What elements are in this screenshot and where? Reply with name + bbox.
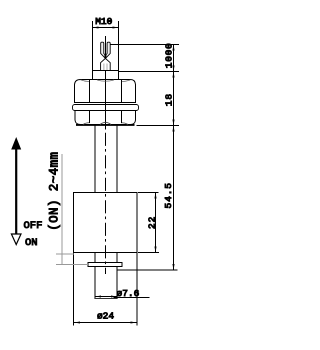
extension line left M10 / thread stub left	[92, 21, 94, 79]
travel arrow solid head up	[11, 137, 21, 150]
dimension line M10	[93, 27, 118, 29]
hex nut 1 face line right	[121, 80, 123, 103]
svg-text:ON: ON	[25, 237, 38, 249]
cable break lower chevron	[101, 58, 111, 70]
arrowhead 1000 bottom	[172, 66, 174, 72]
svg-text:ø24: ø24	[97, 311, 114, 322]
dimension line dia24	[74, 322, 138, 324]
wire left (cable break upper)	[101, 42, 105, 58]
svg-text:M10: M10	[95, 16, 112, 27]
label ON	[25, 237, 38, 249]
lower tube left edge	[94, 267, 96, 299]
dimension text dia 24	[97, 311, 114, 322]
hex nut 2 face line left	[89, 111, 91, 124]
extension line float top	[138, 192, 159, 194]
washer	[73, 105, 139, 111]
extension line right M10 / thread stub right	[118, 21, 120, 79]
hex nut 2 face line right	[121, 111, 123, 124]
svg-text:18: 18	[164, 93, 175, 106]
centerline solid stub below nut	[105, 125, 107, 130]
extension line 18 bottom (nut bottom)	[137, 125, 180, 127]
extension line to 1000 bottom (gland top)	[119, 71, 180, 73]
hex nut 1 face line left	[89, 80, 91, 103]
svg-text:ø7.6: ø7.6	[117, 288, 140, 299]
arrowhead dia7.6 left	[96, 296, 102, 298]
extension line float bottom	[138, 252, 159, 254]
dimension line 22	[155, 193, 157, 253]
dimension text 1000	[164, 43, 175, 69]
arrowhead 54.5 top	[172, 126, 174, 132]
arrowhead dia24 left	[74, 321, 80, 323]
cable centerline	[105, 36, 107, 70]
dimension text M10	[95, 16, 112, 27]
arrowhead 1000 top	[172, 45, 174, 51]
svg-text:OFF: OFF	[24, 220, 43, 232]
label OFF	[24, 220, 43, 232]
wire strands in chevron	[104, 64, 107, 71]
arrowhead dia7.6 right	[111, 296, 117, 298]
hex nut 2 bottom edge band	[76, 124, 135, 126]
dimension line 18	[173, 72, 175, 126]
travel arrow shaft	[15, 147, 17, 234]
travel position line lower gray	[56, 264, 88, 266]
travel arrow hollow head down	[11, 234, 21, 245]
dimension line 54.5	[173, 126, 175, 271]
hex nut 2	[75, 111, 136, 125]
centerline through nut stack	[105, 71, 107, 126]
stem between float and flange left	[94, 253, 96, 264]
dimension text 18	[164, 93, 175, 106]
float body	[74, 193, 138, 253]
travel leader vertical gray	[61, 154, 63, 265]
extension line dia24 right	[136, 253, 138, 326]
label (ON) 2~4mm rotated	[48, 152, 62, 231]
retaining flange	[88, 263, 122, 267]
dimension text 22	[147, 216, 158, 229]
stem upper right edge	[116, 125, 118, 193]
hex nut 1 (gland body)	[75, 80, 136, 103]
lower tube bottom edge	[95, 298, 117, 300]
dashed centerline	[105, 133, 107, 274]
stem between float and flange right	[116, 253, 118, 264]
hex nut 1 top chamfer arcs	[81, 80, 131, 82]
arrowhead 54.5 bottom	[172, 264, 174, 270]
extension line dia24 left	[73, 253, 75, 326]
svg-text:22: 22	[147, 216, 158, 229]
dimension text 54.5	[163, 182, 174, 208]
arrowhead M10 left	[93, 26, 99, 28]
hex nut 2 bottom chamfer arcs	[83, 122, 128, 124]
lower tube right edge	[116, 267, 118, 299]
travel position line upper gray	[56, 253, 74, 255]
extension line to 1000 top	[111, 44, 180, 46]
dimension line 1000	[173, 45, 175, 72]
dimension text dia 7.6	[117, 288, 140, 299]
wire right (cable break upper)	[106, 42, 110, 58]
svg-text:54.5: 54.5	[163, 182, 174, 208]
svg-text:(ON) 2~4mm: (ON) 2~4mm	[48, 152, 62, 231]
leader shelf dia 7.6	[114, 297, 150, 299]
arrowhead 18 bottom	[172, 120, 174, 126]
arrowhead 22 bottom	[154, 247, 156, 253]
svg-text:1000: 1000	[164, 43, 175, 69]
extension line flange bottom	[118, 269, 178, 271]
gland top plate	[93, 70, 119, 72]
arrowhead 22 top	[154, 193, 156, 199]
dimension line dia 7.6	[95, 296, 117, 298]
stem upper left edge	[94, 125, 96, 193]
arrowhead 18 top	[172, 72, 174, 78]
arrowhead dia24 right	[131, 321, 137, 323]
arrowhead M10 right	[113, 26, 119, 28]
